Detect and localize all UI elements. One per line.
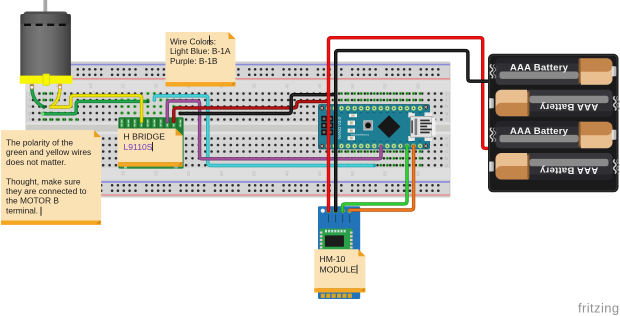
- H-bridge module U2 (L9110S): [118, 117, 183, 168]
- note: polarity explanation: [1, 130, 101, 225]
- Arduino Nano U1: [319, 105, 436, 150]
- svg-text:Thought, make sure: Thought, make sure: [6, 176, 81, 186]
- svg-text:www.arduino.cc: www.arduino.cc: [351, 132, 370, 136]
- wire: green nano TX to HM-10 TXD: [342, 146, 407, 211]
- svg-text:40: 40: [284, 83, 289, 89]
- wire: black battery - to nano GND / HM-10 GND: [336, 51, 489, 211]
- breadboard: [26, 62, 450, 197]
- svg-text:does not matter.: does not matter.: [6, 157, 66, 167]
- svg-text:j: j: [28, 91, 30, 96]
- wire: motor B+ green to breadboard: [32, 87, 44, 108]
- svg-text:50: 50: [350, 171, 355, 177]
- svg-text:j: j: [445, 91, 447, 96]
- svg-text:45: 45: [317, 83, 322, 89]
- svg-text:green and yellow wires: green and yellow wires: [6, 147, 91, 157]
- svg-text:the MOTOR B: the MOTOR B: [6, 196, 59, 206]
- svg-text:AAA Battery: AAA Battery: [510, 126, 569, 137]
- wire: motor B- yellow to breadboard: [51, 87, 60, 107]
- svg-text:60: 60: [415, 171, 420, 177]
- svg-text:40: 40: [284, 171, 289, 177]
- svg-text:AAA Battery: AAA Battery: [539, 164, 598, 175]
- wire: black H-bridge GND to GND column: [179, 95, 336, 116]
- svg-text:55: 55: [383, 171, 388, 177]
- svg-text:35: 35: [252, 171, 257, 177]
- svg-text:i: i: [446, 98, 447, 103]
- svg-text:H BRIDGE: H BRIDGE: [124, 131, 166, 141]
- svg-text:c: c: [445, 149, 447, 154]
- svg-text:Purple: B-1B: Purple: B-1B: [170, 56, 218, 66]
- wire: green jumper to H-bridge column: [41, 100, 150, 116]
- svg-text:60: 60: [415, 83, 420, 89]
- svg-text:45: 45: [317, 171, 322, 177]
- svg-text:AAA Battery: AAA Battery: [510, 63, 569, 74]
- wire: orange nano RX to HM-10 RXD: [350, 146, 414, 210]
- svg-text:35: 35: [252, 83, 257, 89]
- battery holder BT1 (4xAAA): [488, 54, 619, 193]
- svg-text:Light Blue: B-1A: Light Blue: B-1A: [170, 46, 231, 56]
- svg-text:15: 15: [121, 171, 126, 177]
- node highlights: connected breadboard holes: [42, 92, 422, 167]
- svg-text:MODULE: MODULE: [320, 264, 357, 274]
- svg-text:they are connected to: they are connected to: [6, 186, 87, 196]
- svg-text:15: 15: [121, 83, 126, 89]
- svg-text:25: 25: [186, 171, 191, 177]
- DC motor M1: [20, 0, 73, 90]
- svg-text:20: 20: [153, 83, 158, 89]
- note: HM-10 label: [314, 249, 365, 292]
- svg-text:NANO V3.0: NANO V3.0: [337, 116, 342, 139]
- svg-text:HM-10: HM-10: [320, 254, 346, 264]
- svg-text:terminal.: terminal.: [6, 205, 38, 215]
- svg-text:AAA Battery: AAA Battery: [539, 101, 598, 112]
- wire: yellow jumper to H-bridge pin B-1A: [51, 96, 142, 122]
- svg-text:i: i: [29, 98, 30, 103]
- note: H BRIDGE label: [118, 129, 183, 167]
- svg-text:fritzing: fritzing: [578, 301, 620, 316]
- svg-text:L9110S: L9110S: [124, 142, 153, 152]
- wire: red battery + to nano VIN / HM-10 VCC: [329, 38, 489, 211]
- HM-10 bluetooth module U3: [318, 206, 360, 299]
- motor terminal tips: [30, 86, 61, 89]
- svg-text:55: 55: [383, 83, 388, 89]
- svg-text:The polarity of the: The polarity of the: [6, 138, 73, 148]
- svg-text:20: 20: [153, 171, 158, 177]
- svg-text:30: 30: [219, 171, 224, 177]
- note: wire colors: [166, 32, 236, 87]
- svg-text:10: 10: [88, 83, 93, 89]
- wire: purple B-1B to nano D9: [167, 101, 381, 159]
- wire: dark red H-bridge VCC to 5V column: [174, 102, 329, 122]
- wire: light blue B-1A to nano D8: [154, 96, 376, 167]
- svg-text:50: 50: [350, 83, 355, 89]
